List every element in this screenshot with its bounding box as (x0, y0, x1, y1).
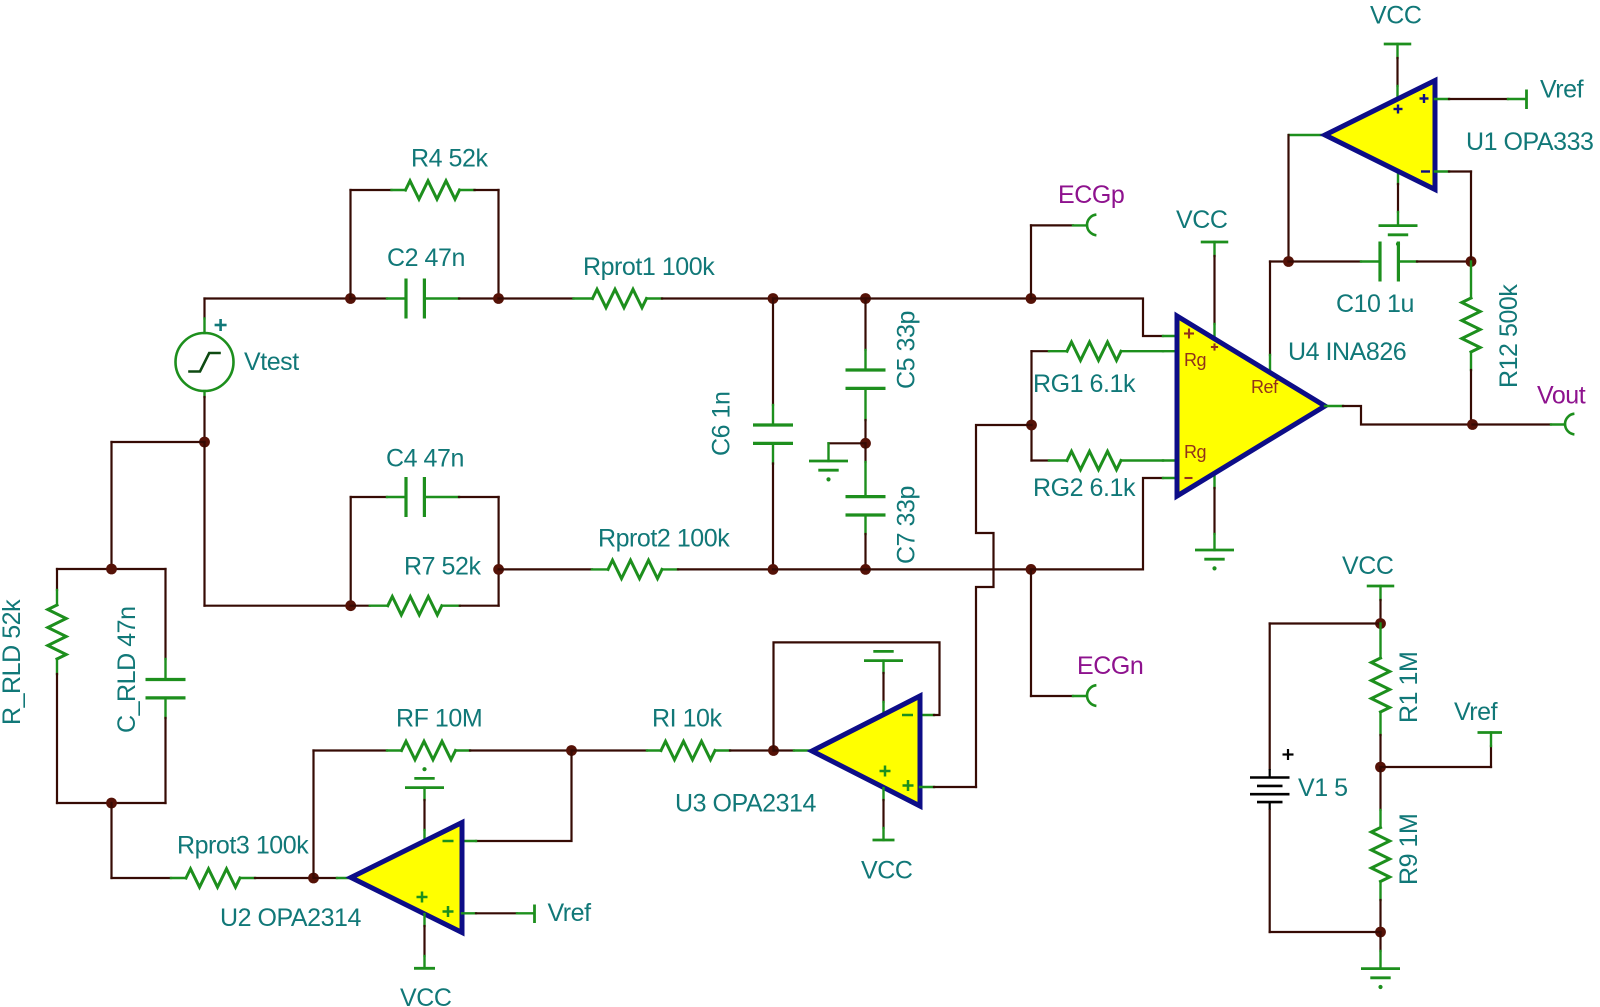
node R4C2 left junction (345, 293, 356, 304)
label R12 500k (1495, 284, 1523, 388)
capacitor C_RLD (146, 569, 186, 803)
wire Vout (1473, 423, 1565, 425)
op-amp U4 INA826 (1177, 316, 1325, 496)
label Rprot1 100k (583, 253, 715, 281)
capacitor C2 (351, 279, 499, 319)
label INA plus marker (1184, 329, 1194, 339)
svg-text:R1 1M: R1 1M (1395, 652, 1423, 723)
capacitor C6 (753, 299, 793, 570)
wire INA ref pin (1270, 262, 1289, 373)
label ECGn (1077, 652, 1143, 680)
svg-text:C10 1u: C10 1u (1336, 290, 1414, 318)
wire R4C2 loop right vertical (497, 190, 499, 299)
wire U1 noninverting to Vref (1435, 90, 1527, 110)
capacitor C5 (846, 299, 886, 444)
label C5 33p (893, 311, 921, 389)
wire ground below INA (1213, 473, 1215, 550)
svg-text:VCC: VCC (1342, 552, 1394, 580)
label R9 1M (1395, 814, 1423, 885)
label U2 OPA2314 (220, 904, 362, 932)
svg-text:VCC: VCC (861, 857, 913, 885)
label VCC at U2 (400, 984, 452, 1007)
op-amp U1 OPA333 (1325, 81, 1435, 190)
node U3 input junction (768, 745, 779, 756)
op-amp U3 (812, 696, 920, 806)
label Vout (1537, 382, 1586, 410)
wire U1 output to C10 (1289, 135, 1326, 262)
svg-text:C7 33p: C7 33p (893, 486, 921, 564)
capacitor C4 (351, 477, 499, 517)
svg-text:ECGp: ECGp (1058, 181, 1124, 209)
wire U2 noninverting input to Vref (462, 905, 535, 924)
resistor R9 (1371, 767, 1389, 932)
resistor RG1 (1032, 342, 1178, 360)
label C4 47n (386, 445, 464, 473)
label U2 plus markers (417, 892, 454, 918)
label VCC at U1 (1370, 2, 1422, 30)
wire bottom rail mid (773, 568, 1031, 570)
svg-text:Rg: Rg (1184, 350, 1206, 370)
svg-text:R12 500k: R12 500k (1495, 284, 1523, 388)
wire junction to RLD branch (112, 442, 205, 569)
wire divider bottom to battery (1270, 931, 1381, 933)
svg-text:C6 1n: C6 1n (708, 392, 736, 456)
svg-text:Vtest: Vtest (244, 348, 299, 376)
svg-text:Rg: Rg (1184, 442, 1206, 462)
svg-text:Vout: Vout (1537, 382, 1586, 410)
node divider top junction (1375, 618, 1386, 629)
resistor RI (572, 741, 774, 759)
svg-text:Ref: Ref (1251, 377, 1279, 397)
wire ECGn (1031, 569, 1087, 696)
node Vtest-bottom junction (199, 437, 210, 448)
svg-text:Rprot3 100k: Rprot3 100k (177, 832, 309, 860)
svg-text:VCC: VCC (1176, 206, 1228, 234)
wire junction to U2 inverting input (462, 751, 572, 842)
svg-text:C4 47n: C4 47n (386, 445, 464, 473)
node C10 right junction (1466, 256, 1477, 267)
wire junction down to lower path (205, 442, 351, 606)
resistor RG2 (1032, 451, 1178, 469)
label VCC divider (1342, 552, 1394, 580)
wire R4C2 loop left vertical (349, 190, 351, 299)
label U1 minus marker (1421, 170, 1430, 172)
label RI 10k (652, 705, 723, 733)
wire VCC divider (1367, 586, 1395, 624)
node Vout junction (1467, 419, 1478, 430)
resistor R4 (351, 181, 499, 199)
voltage source Vtest (176, 333, 234, 391)
svg-text:C_RLD 47n: C_RLD 47n (113, 606, 141, 733)
svg-text:U4 INA826: U4 INA826 (1288, 338, 1406, 366)
capacitor C10 (1289, 242, 1472, 282)
wire divider top to battery (1270, 624, 1381, 770)
resistor R7 (351, 597, 499, 615)
svg-text:U2 OPA2314: U2 OPA2314 (220, 904, 362, 932)
node lower-rail start junction (493, 564, 504, 575)
wire INA+ input (1031, 299, 1177, 337)
resistor R1 (1371, 624, 1389, 768)
svg-text:Vref: Vref (548, 899, 592, 927)
label U3 minus marker (902, 714, 913, 717)
svg-text:Vref: Vref (1540, 76, 1584, 104)
wire battery bottom (1269, 810, 1271, 932)
svg-text:C5 33p: C5 33p (893, 311, 921, 389)
label U3 plus markers (880, 766, 914, 792)
wire RLD to Rprot3 (110, 803, 112, 878)
node U2 output junction (308, 873, 319, 884)
svg-text:V1 5: V1 5 (1298, 774, 1348, 802)
label VCC at INA (1176, 206, 1228, 234)
wire U3 feedback loop (774, 642, 940, 750)
svg-text:U1 OPA333: U1 OPA333 (1466, 128, 1594, 156)
label Vtest (244, 348, 299, 376)
label R7 52k (404, 553, 481, 581)
node C5 top junction (860, 293, 871, 304)
wire VCC to U1 (1384, 44, 1412, 99)
wire RF feedback vertical (312, 751, 314, 879)
ground divider (1361, 932, 1400, 989)
ground mid (809, 443, 848, 481)
capacitor C7 (846, 443, 886, 569)
ground U1 negative-supply (1379, 171, 1418, 246)
svg-text:C2 47n: C2 47n (387, 244, 465, 272)
label INA minus marker (1185, 477, 1193, 479)
svg-text:ECGn: ECGn (1077, 652, 1143, 680)
node mid ground junction (860, 438, 871, 449)
wire U3 input stub (774, 749, 813, 751)
label R1 1M (1395, 652, 1423, 723)
node C6 bottom junction (768, 564, 779, 575)
label V1 plus (1283, 749, 1294, 760)
svg-text:VCC: VCC (400, 984, 452, 1007)
resistor Rprot3 (112, 869, 314, 887)
label VCC at U3 (861, 857, 913, 885)
svg-text:Vref: Vref (1454, 698, 1498, 726)
label C_RLD 47n (113, 606, 141, 733)
svg-text:Rprot1 100k: Rprot1 100k (583, 253, 715, 281)
node R7 left junction (345, 600, 356, 611)
wire RLD box bottom (57, 802, 166, 804)
label ECGp (1058, 181, 1124, 209)
label Vref at U1 (1540, 76, 1584, 104)
label C10 1u (1336, 290, 1414, 318)
label Rprot2 100k (598, 525, 730, 553)
wire Vtest bottom (203, 391, 205, 442)
node ECGp junction (1026, 293, 1037, 304)
label RG2 6.1k (1033, 474, 1136, 502)
svg-text:RI 10k: RI 10k (652, 705, 723, 733)
battery V1 (1250, 769, 1290, 810)
label U1 plus markers (1394, 94, 1429, 114)
svg-text:RG1 6.1k: RG1 6.1k (1033, 370, 1136, 398)
label R_RLD 52k (0, 599, 26, 725)
connector ECGp (1087, 215, 1096, 236)
svg-text:U3 OPA2314: U3 OPA2314 (675, 790, 817, 818)
wire to mid ground (829, 442, 866, 444)
wire U3 negative-supply (873, 788, 895, 840)
node Vref junction (1375, 762, 1386, 773)
resistor R_RLD (48, 569, 66, 803)
wire INA output (1325, 406, 1473, 425)
svg-text:RG2 6.1k: RG2 6.1k (1033, 474, 1136, 502)
resistor Rprot2 (499, 560, 773, 578)
svg-text:RF 10M: RF 10M (396, 705, 482, 733)
wire Vref divider (1381, 733, 1503, 768)
node RLD bottom junction (106, 798, 117, 809)
label U4 INA826 (1288, 338, 1406, 366)
label INA Rg- pin (1184, 442, 1206, 462)
node RG junction (1026, 420, 1037, 431)
wire U1 inverting to C10 (1435, 172, 1471, 262)
label INA Rg+ pin (1184, 343, 1218, 370)
label C6 1n (708, 392, 736, 456)
label C7 33p (893, 486, 921, 564)
label U3 OPA2314 (675, 790, 817, 818)
wire RG junction to U3 output (976, 425, 1032, 787)
svg-text:VCC: VCC (1370, 2, 1422, 30)
ground U2 positive-supply (flipped) (405, 767, 444, 841)
wire RLD box top (57, 568, 166, 570)
resistor Rprot1 (499, 289, 774, 307)
wire top rail mid (773, 297, 1031, 299)
wire VCC to INA (1201, 242, 1229, 339)
resistor RF (314, 741, 572, 759)
wire U2 output stub (314, 877, 352, 879)
connector Vout (1565, 414, 1574, 435)
ground U3 positive-supply (flipped) (864, 651, 903, 716)
svg-text:R9 1M: R9 1M (1395, 814, 1423, 885)
node divider bottom junction (1375, 927, 1386, 938)
label C2 47n (387, 244, 465, 272)
wire R7C4 loop left vertical (350, 497, 352, 606)
label RF 10M (396, 705, 482, 733)
node RF-RI junction (566, 745, 577, 756)
svg-text:R4 52k: R4 52k (411, 145, 488, 173)
ground INA (1195, 550, 1234, 571)
wire U3 output (920, 786, 976, 788)
connector ECGn (1087, 685, 1096, 706)
wire INA- input (1031, 478, 1177, 569)
node C10 left junction (1283, 256, 1294, 267)
label INA Ref pin (1251, 377, 1279, 397)
node ECGn junction (1026, 564, 1037, 575)
label Vtest plus (215, 319, 227, 331)
op-amp U2 (351, 823, 462, 933)
wire top rail left (205, 297, 351, 299)
label RG1 6.1k (1033, 370, 1136, 398)
node C7 bottom junction (860, 564, 871, 575)
node RLD top junction (106, 564, 117, 575)
label U1 OPA333 (1466, 128, 1594, 156)
label Vref divider (1454, 698, 1498, 726)
label U2 minus marker (443, 840, 454, 843)
wire RG series link (1030, 351, 1032, 460)
wire R7C4 loop right vertical (498, 497, 500, 606)
wire U2 negative-supply (414, 914, 435, 968)
label R4 52k (411, 145, 488, 173)
wire Vtest top to rail (203, 299, 205, 334)
svg-text:R7 52k: R7 52k (404, 553, 481, 581)
svg-text:R_RLD 52k: R_RLD 52k (0, 599, 26, 725)
svg-text:Rprot2 100k: Rprot2 100k (598, 525, 730, 553)
node C2 right junction (493, 293, 504, 304)
node C6 top junction (768, 293, 779, 304)
wire ECGp (1031, 225, 1087, 298)
label Vref at U2 (548, 899, 592, 927)
label Rprot3 100k (177, 832, 309, 860)
resistor R12 (1462, 262, 1480, 425)
label V1 5 (1298, 774, 1348, 802)
